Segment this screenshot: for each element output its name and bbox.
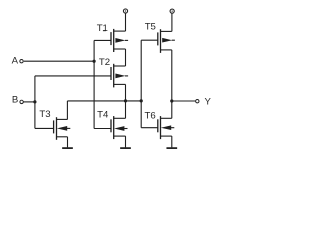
svg-text:T1: T1	[97, 23, 108, 34]
svg-text:A: A	[12, 55, 19, 66]
svg-text:T4: T4	[97, 109, 109, 120]
svg-text:B: B	[12, 95, 18, 106]
svg-text:Y: Y	[205, 96, 212, 107]
svg-text:T6: T6	[145, 111, 156, 122]
svg-text:T2: T2	[99, 57, 110, 68]
svg-text:T5: T5	[145, 22, 156, 33]
svg-text:T3: T3	[39, 109, 50, 120]
